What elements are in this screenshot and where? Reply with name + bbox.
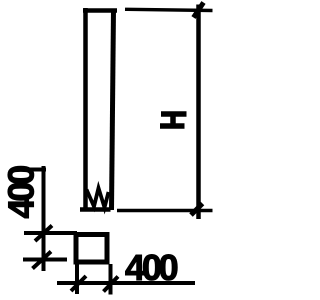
svg-text:400: 400 [125, 247, 178, 288]
svg-text:400: 400 [1, 166, 42, 219]
